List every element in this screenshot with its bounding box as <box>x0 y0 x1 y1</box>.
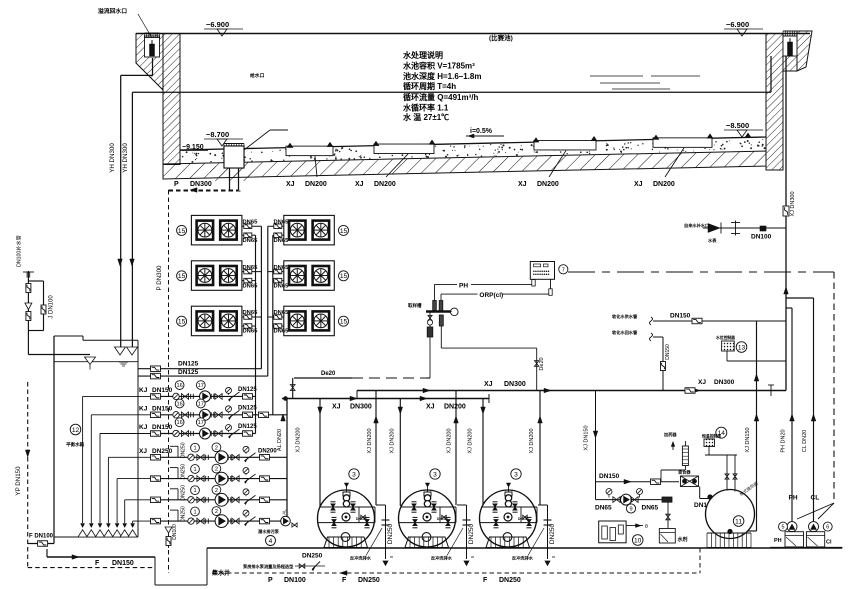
svg-text:1: 1 <box>193 488 196 494</box>
svg-text:DN250: DN250 <box>181 506 187 522</box>
svg-text:XJ DN150: XJ DN150 <box>584 425 590 450</box>
svg-text:DN250: DN250 <box>181 485 187 501</box>
svg-text:10: 10 <box>634 537 642 544</box>
svg-text:DN125: DN125 <box>238 424 257 430</box>
svg-text:5: 5 <box>782 525 785 531</box>
svg-text:2: 2 <box>215 488 218 494</box>
svg-text:泵房排水泵流量及扬程选型: 泵房排水泵流量及扬程选型 <box>243 563 294 570</box>
svg-text:DN250: DN250 <box>181 442 187 458</box>
svg-text:取样槽: 取样槽 <box>408 302 422 309</box>
svg-text:AL DN20: AL DN20 <box>277 429 283 451</box>
svg-text:2: 2 <box>215 509 218 515</box>
svg-text:反冲洗排水: 反冲洗排水 <box>431 555 453 562</box>
svg-text:PH DN20: PH DN20 <box>781 429 787 452</box>
svg-text:3: 3 <box>433 471 437 478</box>
svg-text:KJ: KJ <box>139 387 148 394</box>
svg-text:YH DN300: YH DN300 <box>122 143 129 173</box>
svg-text:Cl: Cl <box>826 540 832 546</box>
svg-text:DN250: DN250 <box>387 523 394 544</box>
svg-text:DN65: DN65 <box>595 505 612 512</box>
svg-text:17: 17 <box>198 383 204 389</box>
svg-text:12: 12 <box>72 427 80 434</box>
svg-text:PH: PH <box>774 538 782 544</box>
svg-text:DN300: DN300 <box>190 181 212 188</box>
svg-text:DN65: DN65 <box>243 219 259 225</box>
svg-text:水循环率 1.1: 水循环率 1.1 <box>402 103 449 113</box>
svg-text:θ: θ <box>645 524 648 530</box>
svg-text:DN250: DN250 <box>302 553 323 560</box>
svg-text:−8.500: −8.500 <box>726 121 749 130</box>
svg-text:YH DN300: YH DN300 <box>109 143 116 173</box>
svg-text:(比赛池): (比赛池) <box>489 33 513 42</box>
svg-text:循环周期 T=4h: 循环周期 T=4h <box>402 81 456 91</box>
svg-text:DN150: DN150 <box>518 517 529 521</box>
svg-text:DN150: DN150 <box>437 517 448 521</box>
svg-text:DN125: DN125 <box>238 405 257 411</box>
svg-text:DN300: DN300 <box>350 404 372 411</box>
svg-text:16: 16 <box>176 402 182 408</box>
svg-text:XJ: XJ <box>634 181 643 188</box>
svg-text:XJ: XJ <box>426 404 435 411</box>
svg-text:反冲洗排水: 反冲洗排水 <box>350 555 372 562</box>
svg-text:DN250: DN250 <box>499 577 521 584</box>
svg-text:DN250: DN250 <box>181 464 187 480</box>
svg-text:DN65: DN65 <box>243 329 259 335</box>
svg-text:7: 7 <box>562 267 565 273</box>
svg-text:15: 15 <box>340 319 348 326</box>
svg-text:DN65: DN65 <box>274 329 290 335</box>
svg-text:15: 15 <box>340 273 348 280</box>
svg-text:XJ: XJ <box>332 404 341 411</box>
svg-text:XJ: XJ <box>484 381 493 388</box>
svg-text:15: 15 <box>178 273 186 280</box>
svg-text:−6.900: −6.900 <box>726 20 749 29</box>
svg-text:XJ DN200: XJ DN200 <box>529 428 535 453</box>
svg-text:XJ: XJ <box>139 448 147 455</box>
svg-text:P: P <box>174 181 179 188</box>
svg-text:13: 13 <box>738 344 746 351</box>
svg-text:DN100: DN100 <box>284 577 306 584</box>
svg-text:DN65: DN65 <box>274 265 290 271</box>
svg-text:6: 6 <box>826 525 829 531</box>
svg-text:水处理说明: 水处理说明 <box>402 50 443 60</box>
svg-text:De20: De20 <box>321 371 336 377</box>
svg-text:CL DN20: CL DN20 <box>802 430 808 452</box>
svg-text:恒温控制阀: 恒温控制阀 <box>702 434 721 439</box>
svg-text:F: F <box>95 560 100 567</box>
svg-text:DN100补水管: DN100补水管 <box>15 235 23 267</box>
svg-text:DN150: DN150 <box>152 424 173 431</box>
svg-text:2: 2 <box>215 467 218 473</box>
svg-text:PH: PH <box>789 495 798 502</box>
svg-text:软化水供水管: 软化水供水管 <box>612 313 638 320</box>
svg-text:XJ: XJ <box>518 181 527 188</box>
svg-text:水池容积 V=1785m³: 水池容积 V=1785m³ <box>402 61 475 71</box>
svg-text:循环流量 Q=491m³/h: 循环流量 Q=491m³/h <box>402 92 478 102</box>
svg-text:P DN300: P DN300 <box>156 265 163 291</box>
svg-text:DN150: DN150 <box>152 387 173 394</box>
svg-text:4: 4 <box>269 538 273 545</box>
svg-text:DN125: DN125 <box>238 387 257 393</box>
svg-text:AL: AL <box>282 509 287 515</box>
svg-text:16: 16 <box>176 383 182 389</box>
svg-text:DN300: DN300 <box>714 379 735 386</box>
svg-text:DN150: DN150 <box>599 473 620 480</box>
svg-text:−8.700: −8.700 <box>206 130 229 139</box>
svg-text:KJ: KJ <box>139 424 148 431</box>
svg-text:DN200: DN200 <box>374 181 396 188</box>
svg-text:DN150: DN150 <box>152 405 173 412</box>
svg-text:给水口: 给水口 <box>250 72 265 79</box>
svg-text:YP DN150: YP DN150 <box>15 466 22 496</box>
svg-text:DN200: DN200 <box>305 181 327 188</box>
svg-text:DN65: DN65 <box>243 238 259 244</box>
svg-text:DN200: DN200 <box>444 404 466 411</box>
svg-text:17: 17 <box>198 402 204 408</box>
svg-text:DN150: DN150 <box>665 344 671 360</box>
svg-text:15: 15 <box>178 228 186 235</box>
svg-text:XJ DN300: XJ DN300 <box>790 191 796 216</box>
svg-text:DN65: DN65 <box>243 310 259 316</box>
svg-text:2: 2 <box>215 445 218 451</box>
svg-text:9: 9 <box>629 507 632 513</box>
svg-text:F DN100: F DN100 <box>29 534 54 540</box>
svg-text:DN100: DN100 <box>751 234 772 241</box>
svg-text:DN150: DN150 <box>670 313 691 320</box>
svg-text:潜水排污泵: 潜水排污泵 <box>258 528 280 535</box>
svg-text:DN65: DN65 <box>274 283 290 289</box>
svg-text:水位控制器: 水位控制器 <box>715 335 735 340</box>
svg-text:P: P <box>268 577 273 584</box>
svg-text:DN65: DN65 <box>274 219 290 225</box>
svg-text:溢流回水口: 溢流回水口 <box>98 7 127 15</box>
svg-text:15: 15 <box>340 228 348 235</box>
svg-text:F: F <box>483 577 488 584</box>
svg-text:池水深度 H=1.6–1.8m: 池水深度 H=1.6–1.8m <box>403 71 481 81</box>
svg-text:DN250: DN250 <box>152 448 173 455</box>
svg-text:DN150: DN150 <box>112 560 134 567</box>
svg-text:DN250: DN250 <box>549 523 556 544</box>
svg-text:DN300: DN300 <box>504 381 526 388</box>
svg-text:反冲洗排水: 反冲洗排水 <box>512 555 534 562</box>
svg-text:De20: De20 <box>539 357 545 370</box>
svg-text:水剂: 水剂 <box>677 536 688 543</box>
svg-text:PH: PH <box>459 282 468 289</box>
svg-text:XJ: XJ <box>355 181 364 188</box>
svg-text:DN250: DN250 <box>468 523 475 544</box>
svg-text:KJ: KJ <box>139 405 148 412</box>
svg-text:DN250: DN250 <box>358 577 380 584</box>
svg-text:软化水回水管: 软化水回水管 <box>612 329 638 336</box>
svg-text:水表: 水表 <box>708 237 717 244</box>
svg-text:J DN100: J DN100 <box>49 295 55 319</box>
svg-text:水 温 27±1℃: 水 温 27±1℃ <box>402 112 449 122</box>
svg-text:自来水补水口: 自来水补水口 <box>684 222 709 229</box>
svg-text:15: 15 <box>178 319 186 326</box>
svg-text:XJ DN200: XJ DN200 <box>468 428 474 453</box>
svg-text:F: F <box>342 577 347 584</box>
svg-text:17: 17 <box>198 420 204 426</box>
svg-text:CL: CL <box>811 495 820 502</box>
svg-text:XJ DN150: XJ DN150 <box>745 427 751 452</box>
svg-text:DN65: DN65 <box>274 310 290 316</box>
svg-text:DN200: DN200 <box>258 448 277 454</box>
svg-text:DN200: DN200 <box>537 181 559 188</box>
svg-text:DN65: DN65 <box>243 283 259 289</box>
svg-text:ORP(cl): ORP(cl) <box>479 292 503 299</box>
svg-text:DN100: DN100 <box>172 524 178 540</box>
svg-text:3: 3 <box>352 471 356 478</box>
svg-text:1: 1 <box>193 446 196 452</box>
svg-text:DN125: DN125 <box>178 369 199 376</box>
svg-text:11: 11 <box>735 518 742 525</box>
svg-text:3: 3 <box>514 471 518 478</box>
svg-text:DN150: DN150 <box>356 517 367 521</box>
svg-text:1: 1 <box>193 467 196 473</box>
svg-text:XJ: XJ <box>286 181 295 188</box>
svg-text:XJ DN200: XJ DN200 <box>447 428 453 453</box>
svg-text:XJ DN200: XJ DN200 <box>367 428 373 453</box>
svg-text:XJ DN200: XJ DN200 <box>296 427 302 452</box>
svg-text:DN65: DN65 <box>274 238 290 244</box>
svg-text:平衡水箱: 平衡水箱 <box>66 441 84 448</box>
svg-text:XJ: XJ <box>698 379 706 386</box>
svg-text:1: 1 <box>193 510 196 516</box>
svg-text:16: 16 <box>176 420 182 426</box>
svg-text:DN65: DN65 <box>243 265 259 271</box>
svg-text:DN200: DN200 <box>653 181 675 188</box>
svg-text:DN125: DN125 <box>178 361 199 368</box>
svg-text:加药器: 加药器 <box>663 431 677 438</box>
svg-text:XJ DN200: XJ DN200 <box>390 428 396 453</box>
svg-text:−6.900: −6.900 <box>206 20 229 29</box>
svg-text:DN65: DN65 <box>642 505 659 512</box>
